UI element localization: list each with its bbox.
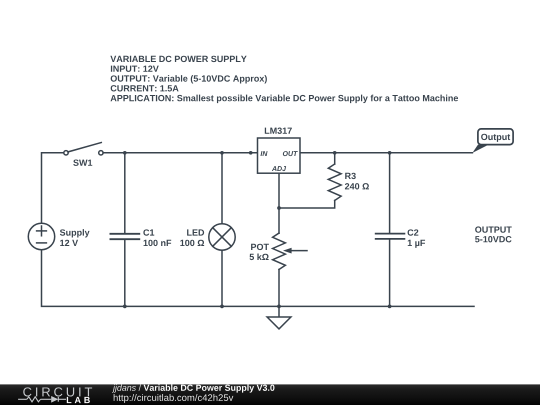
footer title: jjdans / Variable DC Power Supply V3.0 xyxy=(112,384,136,392)
wire: left rail top + top rail to switch xyxy=(42,153,64,224)
lamp LED 100 ohm xyxy=(209,153,235,307)
wire: top rail LM317 OUT to output flag xyxy=(300,152,472,154)
logo schematic glyph xyxy=(18,396,66,403)
pin label IN xyxy=(261,151,268,156)
footer url xyxy=(114,394,234,403)
label C1 100 nF xyxy=(143,229,154,235)
wire: ADJ pin to R3 bottom xyxy=(279,173,335,208)
resistor R3 240 ohm xyxy=(328,153,341,201)
label LM317 xyxy=(265,128,292,134)
label POT 5 kohm xyxy=(251,244,269,250)
wire: left rail bottom + bottom rail xyxy=(42,250,475,307)
label LED 100 ohm xyxy=(187,229,204,235)
capacitor C2 xyxy=(376,153,405,307)
label Supply 12 V xyxy=(60,229,90,237)
pin label ADJ xyxy=(272,166,286,171)
label R3 240 ohm xyxy=(345,173,356,179)
potentiometer POT 5 kohm xyxy=(273,208,307,306)
junction dots xyxy=(123,151,392,308)
ground xyxy=(267,306,291,329)
regulator LM317 body xyxy=(258,138,301,173)
label SW1 xyxy=(73,160,92,166)
annotation OUTPUT 5-10VDC xyxy=(475,226,512,232)
logo CIRCUIT xyxy=(23,387,92,396)
capacitor C1 xyxy=(110,153,139,307)
logo LAB xyxy=(67,397,90,403)
node flag Output xyxy=(472,129,513,153)
wire: top rail switch to LM317 IN xyxy=(103,152,260,154)
voltage source Supply 12 V xyxy=(28,223,54,249)
label flag text Output xyxy=(481,134,510,142)
switch SW1 xyxy=(64,143,103,156)
annotation: title block xyxy=(110,56,458,103)
label C2 1 uF xyxy=(408,229,419,235)
pin label OUT xyxy=(283,151,298,156)
